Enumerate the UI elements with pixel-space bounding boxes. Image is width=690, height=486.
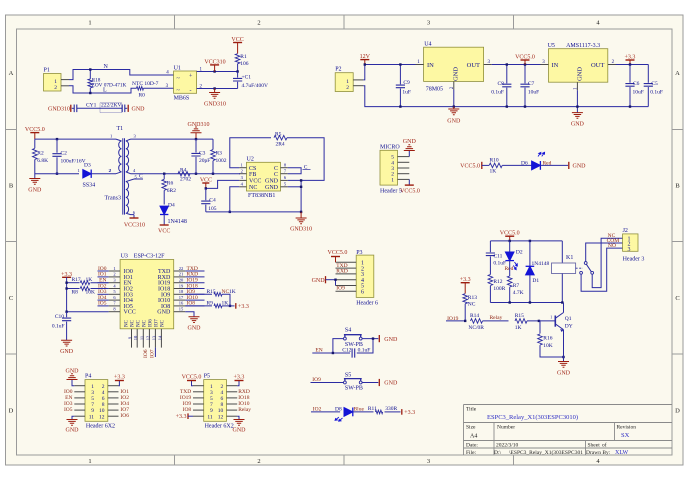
wire 5V rail <box>492 64 649 66</box>
resistor R10 <box>489 163 502 168</box>
svg-text:SX: SX <box>621 432 630 439</box>
svg-text:100uF/16V: 100uF/16V <box>61 158 86 164</box>
svg-text:4.7K: 4.7K <box>513 290 524 296</box>
svg-text:GND: GND <box>66 369 80 375</box>
svg-text:FB: FB <box>249 172 256 178</box>
resistor R1 <box>235 54 240 64</box>
svg-text:VCC310: VCC310 <box>124 223 145 229</box>
svg-text:R14: R14 <box>470 313 479 319</box>
svg-text:10K: 10K <box>543 343 553 349</box>
svg-text:11: 11 <box>139 336 144 340</box>
svg-text:U1: U1 <box>174 65 181 71</box>
svg-text:2R4: 2R4 <box>276 141 285 147</box>
wire R5 to GND pin <box>287 138 324 181</box>
svg-text:C4: C4 <box>209 197 216 203</box>
svg-text:+3.3: +3.3 <box>176 414 187 420</box>
wire relay bottom rail <box>490 302 562 304</box>
svg-text:RXD: RXD <box>336 269 348 275</box>
svg-text:R15: R15 <box>515 313 524 319</box>
svg-text:GND: GND <box>557 370 571 376</box>
svg-text:Drawn By:: Drawn By: <box>586 450 611 456</box>
svg-text:\ESPC3_Relay_X1(303ESPC301: \ESPC3_Relay_X1(303ESPC301 <box>509 449 583 456</box>
wire U3 GND pin <box>185 312 194 317</box>
svg-text:1K: 1K <box>490 169 497 175</box>
resistor R13 <box>463 294 468 304</box>
svg-text:NC: NC <box>249 185 257 191</box>
capacitor C4 <box>205 188 207 200</box>
svg-text:Header 6X2: Header 6X2 <box>86 424 115 430</box>
svg-text:IO19: IO19 <box>180 395 192 401</box>
svg-text:17: 17 <box>179 295 184 300</box>
svg-text:VCC5.0: VCC5.0 <box>460 164 480 170</box>
resistor R3 <box>212 139 214 149</box>
resistor R9 on IO8 <box>185 305 212 307</box>
svg-text:IO7: IO7 <box>155 319 160 327</box>
svg-text:3: 3 <box>628 247 631 253</box>
svg-text:11: 11 <box>89 414 95 420</box>
svg-text:R10: R10 <box>490 158 499 164</box>
svg-text:2: 2 <box>102 384 105 390</box>
svg-text:2: 2 <box>113 272 115 277</box>
svg-text:100R: 100R <box>493 286 505 292</box>
svg-text:Trans3: Trans3 <box>105 196 121 202</box>
svg-text:C8: C8 <box>497 81 504 87</box>
svg-text:15: 15 <box>179 307 184 312</box>
svg-text:12: 12 <box>99 414 105 420</box>
resistor R15 on IO9 <box>185 293 212 295</box>
varistor R18 <box>89 70 91 79</box>
ground GND under U5 <box>572 113 583 119</box>
svg-text:of: of <box>602 442 607 449</box>
svg-text:R5: R5 <box>275 131 282 137</box>
svg-text:C12: C12 <box>342 347 351 353</box>
svg-text:R13: R13 <box>468 295 477 301</box>
svg-text:5: 5 <box>210 396 213 402</box>
wire U1 pin2 net <box>197 88 238 90</box>
svg-text:GND: GND <box>265 179 279 185</box>
svg-text:10uF: 10uF <box>528 90 539 96</box>
ground GND bottom of P4 <box>72 416 74 419</box>
svg-text:GND: GND <box>576 67 583 81</box>
wire 12V rail <box>363 65 365 80</box>
svg-text:Header 5: Header 5 <box>380 188 402 194</box>
svg-text:D: D <box>9 408 14 415</box>
svg-text:6: 6 <box>220 396 223 402</box>
power port VCC5.0 at P5 <box>192 381 194 386</box>
svg-text:D: D <box>675 408 680 415</box>
svg-text:C2: C2 <box>61 150 68 156</box>
svg-text:IO5: IO5 <box>98 301 107 307</box>
wire U4 GND pin <box>453 81 455 89</box>
svg-text:10uF: 10uF <box>633 90 644 96</box>
svg-text:Revision: Revision <box>617 425 637 431</box>
svg-text:2: 2 <box>257 458 260 465</box>
wire NC to bottom <box>230 187 240 212</box>
power port +3.3 at R11 <box>401 409 403 415</box>
capacitor C7 <box>524 65 526 84</box>
svg-text:GND310: GND310 <box>188 122 210 128</box>
svg-text:6: 6 <box>361 290 364 296</box>
svg-text:S5: S5 <box>345 373 351 379</box>
power port +3.3 top P5 <box>237 381 239 386</box>
svg-text:R2: R2 <box>37 150 44 156</box>
wire relay top rail <box>490 240 562 242</box>
svg-text:MICRO: MICRO <box>380 145 400 151</box>
svg-text:1: 1 <box>91 384 94 390</box>
svg-text:+3.3: +3.3 <box>234 374 245 380</box>
svg-text:MB6S: MB6S <box>174 96 190 102</box>
svg-text:C: C <box>139 174 143 180</box>
resistor R8 <box>80 287 90 291</box>
wire IO9 button <box>311 382 344 384</box>
svg-text:VCC5.0: VCC5.0 <box>400 188 420 194</box>
resistor R11 <box>375 410 383 414</box>
svg-text:CY1: CY1 <box>86 102 97 108</box>
svg-text:222/2KV: 222/2KV <box>101 102 122 108</box>
svg-text:U5: U5 <box>548 43 555 49</box>
diode D4 <box>160 206 168 214</box>
svg-text:GND: GND <box>157 310 171 316</box>
svg-text:Sheet: Sheet <box>588 443 601 449</box>
svg-text:R16: R16 <box>543 336 552 342</box>
resistor R14 <box>471 319 483 324</box>
resistor R0 NTC <box>137 87 144 91</box>
svg-text:IO4: IO4 <box>120 401 129 407</box>
svg-text:GND: GND <box>233 428 247 434</box>
svg-text:7: 7 <box>91 402 94 408</box>
svg-text:ESP-C3-12F: ESP-C3-12F <box>134 253 165 259</box>
svg-text:7: 7 <box>210 402 213 408</box>
svg-text:C: C <box>9 295 13 302</box>
LED D6 <box>532 161 541 170</box>
regulator U4 <box>424 47 484 81</box>
regulator U5 <box>549 49 608 82</box>
svg-text:+3.3: +3.3 <box>404 410 415 416</box>
power port VCC5.0 at MICRO pin1 <box>408 179 410 185</box>
svg-text:1: 1 <box>54 79 57 85</box>
svg-text:12: 12 <box>145 336 150 341</box>
svg-text:1: 1 <box>346 79 349 85</box>
svg-text:B: B <box>675 183 680 190</box>
wire 3.3V out <box>616 64 648 66</box>
svg-text:1: 1 <box>391 177 394 183</box>
svg-text:R15: R15 <box>207 289 216 295</box>
svg-text:6: 6 <box>102 396 105 402</box>
svg-text:10: 10 <box>99 408 105 414</box>
diode D1 <box>529 241 531 266</box>
wire emitter to GND <box>563 330 565 362</box>
wire CS to R5 <box>230 138 271 168</box>
svg-text:R3: R3 <box>216 151 223 157</box>
wire C pins <box>288 168 301 174</box>
svg-text:GND310: GND310 <box>48 107 70 113</box>
svg-text:IO9: IO9 <box>183 401 192 407</box>
svg-text:XLW: XLW <box>615 450 629 456</box>
svg-text:D8: D8 <box>335 407 342 413</box>
svg-text:R4: R4 <box>180 168 187 174</box>
svg-text:1002: 1002 <box>216 158 227 164</box>
svg-text:Number: Number <box>497 425 515 431</box>
svg-text:2: 2 <box>109 168 111 173</box>
LED D2 <box>509 241 511 252</box>
svg-text:2702: 2702 <box>180 177 191 183</box>
svg-text:10K: 10K <box>86 289 96 295</box>
svg-text:R11: R11 <box>368 406 377 412</box>
svg-text:NC: NC <box>143 319 148 327</box>
svg-text:U2: U2 <box>247 157 254 163</box>
svg-text:1: 1 <box>88 20 91 27</box>
svg-text:0.1uF: 0.1uF <box>52 323 65 329</box>
svg-text:R1: R1 <box>240 54 247 60</box>
diode D3 <box>83 170 91 178</box>
resistor R16 <box>539 321 540 334</box>
wire P1 loop <box>69 70 174 80</box>
svg-text:R12: R12 <box>493 279 502 285</box>
capacitor C12 <box>352 348 355 357</box>
wire U2 GND pins <box>288 180 301 212</box>
svg-text:6.8K: 6.8K <box>37 158 48 164</box>
svg-text:1: 1 <box>88 458 91 465</box>
svg-text:-: - <box>190 88 192 94</box>
svg-text:R0: R0 <box>139 92 146 98</box>
ground GND at Q1 <box>558 362 569 368</box>
svg-text:105: 105 <box>208 206 217 212</box>
svg-text:Title: Title <box>466 407 477 413</box>
svg-text:C7: C7 <box>528 81 535 87</box>
svg-text:IO7: IO7 <box>120 407 129 413</box>
wire S4 left <box>333 339 344 353</box>
svg-text:NC: NC <box>125 319 130 327</box>
svg-text:ESPC3_Relay_X1(303ESPC3010): ESPC3_Relay_X1(303ESPC3010) <box>487 414 578 421</box>
wire NC <box>592 238 622 287</box>
svg-text:J2: J2 <box>623 228 628 234</box>
svg-text:IO9: IO9 <box>336 285 345 291</box>
bridge rectifier U1 <box>174 71 197 93</box>
svg-text:10: 10 <box>218 408 224 414</box>
resistor R4 <box>178 171 190 176</box>
svg-text:P4: P4 <box>85 374 91 380</box>
wire IO19 <box>446 320 464 322</box>
capacitor C1 <box>237 72 239 78</box>
svg-text:U3: U3 <box>121 253 128 259</box>
svg-text:GND: GND <box>571 122 585 128</box>
resistor R2 <box>33 148 38 159</box>
capacitor C9 <box>399 65 401 85</box>
ground port GND at S4 <box>378 335 380 342</box>
svg-text:IO18: IO18 <box>238 395 250 401</box>
svg-text:NC/0R: NC/0R <box>468 325 484 331</box>
svg-text:GND: GND <box>384 337 398 343</box>
net label C at pin5 <box>134 178 143 180</box>
connector P1 <box>44 74 62 92</box>
svg-text:GND310: GND310 <box>204 101 226 107</box>
power port +3.3 at R9 <box>235 303 237 309</box>
svg-text:13: 13 <box>151 335 156 340</box>
svg-text:1: 1 <box>241 163 243 168</box>
svg-text:5: 5 <box>91 396 94 402</box>
svg-text:SW-PB: SW-PB <box>345 386 363 392</box>
svg-text:+C1: +C1 <box>242 75 252 81</box>
svg-text:VCC: VCC <box>249 179 261 185</box>
svg-text:NC: NC <box>131 319 136 327</box>
svg-text:OUT: OUT <box>467 62 480 69</box>
svg-text:D:\: D:\ <box>494 450 502 456</box>
svg-text:A: A <box>9 70 14 77</box>
svg-text:9: 9 <box>210 408 213 414</box>
U3 bottom pins <box>131 329 133 348</box>
resistor R12 <box>488 275 493 286</box>
resistor R7 <box>507 276 512 287</box>
svg-text:C9: C9 <box>403 80 410 86</box>
svg-text:VCC: VCC <box>124 310 136 316</box>
svg-text:GND: GND <box>188 326 202 332</box>
ground GND310 under U1 <box>214 89 216 93</box>
svg-text:78M05: 78M05 <box>426 87 443 93</box>
transistor Q1 <box>554 316 556 327</box>
svg-text:21: 21 <box>179 272 184 277</box>
svg-text:8: 8 <box>102 402 105 408</box>
svg-text:GND: GND <box>453 67 460 81</box>
svg-text:R7: R7 <box>513 283 520 289</box>
svg-text:10: 10 <box>133 335 138 340</box>
svg-text:3: 3 <box>427 458 430 465</box>
svg-text:A4: A4 <box>470 434 477 440</box>
svg-text:ZOV 07D-471K: ZOV 07D-471K <box>92 83 127 89</box>
svg-text:IO10: IO10 <box>238 401 250 407</box>
svg-text:0.1uF: 0.1uF <box>491 90 504 96</box>
wire S4 right <box>357 339 373 353</box>
ground port GND at D6 <box>568 162 570 169</box>
svg-text:IO5: IO5 <box>64 407 73 413</box>
wire primary top <box>35 138 116 140</box>
svg-text:106: 106 <box>240 61 249 67</box>
wire U2 bottom rail <box>206 211 301 213</box>
svg-text:IO2: IO2 <box>120 395 129 401</box>
svg-text:P1: P1 <box>44 68 50 74</box>
relay contact dashed link <box>576 267 583 269</box>
svg-text:C5: C5 <box>651 81 658 87</box>
net label IO6 IO7 below U3 <box>154 348 156 357</box>
svg-text:C10: C10 <box>55 314 64 320</box>
svg-text:GND: GND <box>265 185 279 191</box>
ground GND310 under U2 <box>300 212 302 218</box>
svg-text:B: B <box>9 183 14 190</box>
svg-text:R9: R9 <box>207 301 214 307</box>
svg-text:2: 2 <box>241 169 243 174</box>
wire primary bottom <box>35 173 79 175</box>
svg-text:2: 2 <box>346 85 349 91</box>
svg-text:EN: EN <box>65 395 72 401</box>
svg-text:D4: D4 <box>168 202 175 208</box>
svg-text:18: 18 <box>179 289 184 294</box>
wire aux top <box>131 138 214 140</box>
svg-text:IO6: IO6 <box>143 349 149 358</box>
svg-text:2: 2 <box>257 20 260 27</box>
svg-text:NC: NC <box>136 319 141 327</box>
svg-text:NTC 10D-7: NTC 10D-7 <box>132 81 159 87</box>
svg-text:+3.3: +3.3 <box>114 374 125 380</box>
svg-text:4.7uF/400V: 4.7uF/400V <box>242 83 268 89</box>
svg-text:+3.3: +3.3 <box>238 304 249 310</box>
svg-text:20pF: 20pF <box>199 158 210 164</box>
svg-text:GND: GND <box>573 164 587 170</box>
svg-text:AMS1117-3.3: AMS1117-3.3 <box>566 43 600 49</box>
svg-text:FT838NB1: FT838NB1 <box>248 193 275 199</box>
svg-text:1N4148: 1N4148 <box>168 219 187 225</box>
capacitor C5 <box>647 65 649 83</box>
svg-text:D1: D1 <box>532 278 539 284</box>
resistor R15 base <box>515 319 527 324</box>
ground GND under R2 <box>29 179 40 185</box>
wire FB net <box>238 173 241 175</box>
net labels U3 right <box>185 270 204 272</box>
svg-text:D6: D6 <box>521 160 528 166</box>
svg-text:2022/3/10: 2022/3/10 <box>496 443 519 449</box>
svg-text:IO8: IO8 <box>183 407 192 413</box>
capacitor C6 <box>629 65 631 83</box>
svg-text:9: 9 <box>91 408 94 414</box>
svg-text:1: 1 <box>550 314 552 319</box>
capacitor C8 <box>506 65 508 84</box>
svg-text:GND: GND <box>66 428 80 434</box>
wire U1 pin1 net <box>197 71 238 73</box>
svg-text:VCC: VCC <box>158 229 170 235</box>
svg-text:Header 6X2: Header 6X2 <box>205 424 234 430</box>
power port VCC under D4 <box>160 224 169 226</box>
ground GND bottom of P5 <box>237 416 239 419</box>
svg-text:P2: P2 <box>335 67 341 73</box>
power port VCC310 at pin6 <box>133 215 135 218</box>
svg-text:1: 1 <box>110 133 112 138</box>
svg-text:2: 2 <box>220 384 223 390</box>
svg-text:Q1: Q1 <box>565 316 572 322</box>
svg-text:6R2: 6R2 <box>167 188 176 194</box>
wire COM <box>586 243 623 262</box>
svg-text:3: 3 <box>210 390 213 396</box>
svg-text:R6: R6 <box>167 180 174 186</box>
ground GND at U3 pin15 <box>189 317 200 323</box>
svg-text:11: 11 <box>207 414 213 420</box>
svg-text:Header 3: Header 3 <box>623 256 645 262</box>
frame column ticks <box>175 15 514 465</box>
ground GND at MICRO pin5 <box>408 151 410 157</box>
svg-text:IO0: IO0 <box>64 389 73 395</box>
wire U5 GND pin <box>576 82 578 90</box>
svg-text:VCC5.0: VCC5.0 <box>328 250 348 256</box>
connector P2 <box>335 73 353 92</box>
svg-text:IO6: IO6 <box>149 319 154 327</box>
svg-text:14: 14 <box>157 335 162 340</box>
svg-text:A: A <box>675 70 680 77</box>
svg-text:N: N <box>104 64 109 70</box>
svg-text:12: 12 <box>218 414 224 420</box>
svg-text:GND: GND <box>60 349 74 355</box>
svg-text:VCC5.0: VCC5.0 <box>182 374 202 380</box>
net labels U3 left <box>98 270 109 272</box>
svg-text:19: 19 <box>179 283 184 288</box>
svg-text:GND: GND <box>403 139 417 145</box>
capacitor C3 <box>195 139 197 152</box>
svg-text:R8: R8 <box>72 289 79 295</box>
svg-text:IN: IN <box>552 62 559 69</box>
svg-text:IO3: IO3 <box>64 401 73 407</box>
svg-text:IN: IN <box>427 62 434 69</box>
svg-text:IO6: IO6 <box>120 413 129 419</box>
controller U2 <box>247 162 281 191</box>
svg-text:1: 1 <box>210 384 213 390</box>
svg-text:C: C <box>675 295 679 302</box>
capacitor C10 <box>66 312 68 318</box>
